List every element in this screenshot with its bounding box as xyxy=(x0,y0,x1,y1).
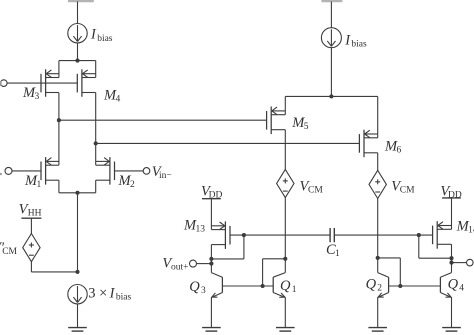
wire: left VCM down to Q1 collector xyxy=(284,198,286,273)
svg-text:Q: Q xyxy=(448,277,459,293)
svg-text:3: 3 xyxy=(35,92,40,102)
svg-text:4: 4 xyxy=(459,284,464,294)
svg-text:6: 6 xyxy=(397,146,402,156)
label remnant Vin+ at left edge (cropped) xyxy=(0,173,2,175)
terminal Vout+ xyxy=(190,260,197,267)
wire: right Ibias down to M5/M6 source rail xyxy=(330,48,332,97)
wire: VDD bar to M14 source xyxy=(451,198,453,229)
terminal Vout- (cropped) xyxy=(467,259,474,266)
ground (Q4) xyxy=(442,328,461,332)
current source I_bias (right) xyxy=(321,28,341,48)
node: M13 gate / output tie xyxy=(242,233,246,237)
wire: Q4 emitter to ground xyxy=(451,297,453,328)
node: Q2 collector / base tie xyxy=(376,256,380,260)
wire: bias terminal to M3/M4 gates xyxy=(7,82,77,84)
ground (tail current source) xyxy=(68,328,87,332)
transistor M2 (PMOS) xyxy=(96,157,115,185)
wire: M13 gate tie down to Vout+ node xyxy=(243,235,245,259)
wire: Q3/Q1 base wire xyxy=(222,285,273,287)
svg-text:Q: Q xyxy=(280,278,291,294)
svg-text:CM: CM xyxy=(2,247,17,257)
node: M14 gate / output tie xyxy=(417,233,421,237)
transistor M6 (PMOS) xyxy=(359,130,377,158)
node: Q3/Q1 base junction xyxy=(261,284,265,288)
wire: Q3 emitter to ground xyxy=(210,297,212,328)
wire: M5/M6 source rail xyxy=(285,95,377,97)
svg-text:CM: CM xyxy=(308,186,323,196)
label remnant at left edge (cropped) xyxy=(0,81,2,86)
wire: M5 drain down to left VCM source xyxy=(284,130,286,170)
svg-text:in−: in− xyxy=(159,171,172,181)
wire: tail down to 3xIbias / VCM' branch xyxy=(77,193,79,272)
wire: M1 drain down to tail rail xyxy=(58,180,60,193)
transistor M13 (PMOS, mirrored) xyxy=(211,221,230,249)
node: tail / VCM' junction xyxy=(75,270,79,274)
dependent source V_CM (left diamond) xyxy=(277,169,294,197)
node: M13 drain / gate-tie junction xyxy=(209,257,213,261)
wire: M2 drain down to tail rail xyxy=(95,180,97,193)
svg-text:Q: Q xyxy=(189,279,200,295)
wire: node B to M6 gate xyxy=(96,142,360,144)
wire: M6 drain down to right VCM source xyxy=(377,153,379,171)
node: Q1 collector / base tie xyxy=(283,257,287,261)
transistor Q1 (NPN, diode-connected) xyxy=(273,273,285,298)
wire: C1 to M14 gate (right segment) xyxy=(334,234,432,236)
svg-text:CM: CM xyxy=(400,186,415,196)
wire: rail down to M3 source xyxy=(58,61,60,78)
transistor M4 (PMOS) xyxy=(77,69,95,97)
svg-text:1: 1 xyxy=(292,285,297,295)
ground (Q3) xyxy=(202,328,221,332)
wire: M14 gate tie down to Vout- node xyxy=(418,235,420,258)
wire: top-left supply to Ibias source xyxy=(77,2,79,24)
wire: Q2/Q4 base wire xyxy=(389,285,441,287)
svg-text:3 ×: 3 × xyxy=(88,285,107,301)
transistor Q2 (NPN, diode-connected) xyxy=(378,273,389,298)
current source I_bias (left) xyxy=(68,24,87,43)
svg-text:3: 3 xyxy=(201,286,206,296)
supply bar V_DD (left) xyxy=(202,198,221,200)
svg-text:4: 4 xyxy=(116,95,121,105)
wire: right VCM down to Q2 collector xyxy=(377,199,379,273)
transistor M1 (PMOS) xyxy=(41,157,59,185)
node: M5/M6 source rail junction xyxy=(329,94,333,98)
node: Vout- junction xyxy=(449,261,453,265)
dependent source V'_CM (diamond) xyxy=(23,234,40,262)
wire: Vin+ terminal to M1 gate xyxy=(12,170,41,172)
terminal Vin- xyxy=(143,168,150,175)
transistor Q3 (NPN) xyxy=(211,273,222,298)
svg-text:2: 2 xyxy=(377,284,382,294)
supply bar V_HH xyxy=(21,217,41,219)
wire: M2 gate to Vin- terminal xyxy=(115,170,144,172)
wire: VCM' source to tail branch xyxy=(30,262,32,272)
svg-text:bias: bias xyxy=(351,40,367,50)
svg-text:Q: Q xyxy=(366,277,377,293)
node B: M4 drain / M6 gate xyxy=(94,141,98,145)
wire: M4 drain down to M2 source xyxy=(95,93,97,166)
svg-text:bias: bias xyxy=(97,34,113,44)
svg-text:HH: HH xyxy=(28,209,42,219)
wire: V_HH bar to VCM' source xyxy=(30,218,32,233)
node: Vout+ junction xyxy=(209,262,213,266)
capacitor C1 xyxy=(330,228,334,242)
svg-text:14: 14 xyxy=(468,226,474,236)
terminal Vin+ (cropped label) xyxy=(5,167,12,174)
wire: Vout- node to terminal xyxy=(452,262,467,264)
supply bar V_DD (right) xyxy=(442,197,461,199)
wire: Ibias source to M3/M4 source rail xyxy=(77,43,79,61)
wire: Q2 emitter to ground xyxy=(377,297,379,328)
wire: node A to M5 gate xyxy=(59,119,267,121)
wire: rail down to M5 source xyxy=(284,96,286,114)
wire: cropped supply stub top-left (grey) xyxy=(68,0,94,2)
wire: Vout+ terminal to node xyxy=(197,263,212,265)
wire: 3xIbias to ground xyxy=(77,304,79,328)
wire: VDD bar to M13 source xyxy=(210,199,212,230)
transistor M5 (PMOS) xyxy=(267,107,286,135)
wire: Q1 base tie up to collector xyxy=(262,259,264,286)
wire: cropped supply stub top-right (grey) xyxy=(321,0,342,2)
svg-text:2: 2 xyxy=(130,180,135,190)
wire: rail down to M6 source xyxy=(377,96,379,137)
wire: top-right supply to Ibias source xyxy=(330,2,332,28)
wire: Q1 emitter to ground xyxy=(284,297,286,328)
wire: M14 drain down to Vout- node xyxy=(451,244,453,272)
wire: M13 drain down to Vout+ node xyxy=(210,245,212,273)
node A: M3 drain / M5 gate xyxy=(57,118,61,122)
svg-text:13: 13 xyxy=(196,225,206,235)
ground (Q1) xyxy=(276,328,295,332)
svg-text:DD: DD xyxy=(448,191,462,201)
node: M3/M4 source rail junction xyxy=(75,59,79,63)
current source 3xI_bias xyxy=(68,285,87,304)
svg-text:1: 1 xyxy=(37,180,42,190)
wire: tail rail xyxy=(59,192,96,194)
transistor Q4 (NPN) xyxy=(440,273,451,298)
wire: rail down to M4 source xyxy=(95,61,97,78)
wire: Q2 base tie up to collector xyxy=(399,258,401,286)
terminal: gate bias input (top-left, cropped) xyxy=(1,80,8,87)
dependent source V_CM (right diamond) xyxy=(369,170,386,198)
wire: M3 drain down to M1 source xyxy=(58,93,60,166)
node: tail junction xyxy=(75,191,79,195)
node: Q2/Q4 base junction xyxy=(398,284,402,288)
svg-text:1: 1 xyxy=(335,249,340,259)
svg-text:5: 5 xyxy=(304,122,309,132)
transistor M3 (PMOS) xyxy=(41,69,59,97)
wire: M3/M4 source rail xyxy=(59,60,96,62)
svg-text:out+: out+ xyxy=(171,263,189,273)
svg-text:bias: bias xyxy=(116,293,132,303)
wire: M13 gate to C1 (left segment) xyxy=(230,234,330,236)
transistor M14 (PMOS) xyxy=(433,221,452,249)
node: M14 drain / gate-tie junction xyxy=(449,256,453,260)
ground (Q2) xyxy=(368,328,387,332)
